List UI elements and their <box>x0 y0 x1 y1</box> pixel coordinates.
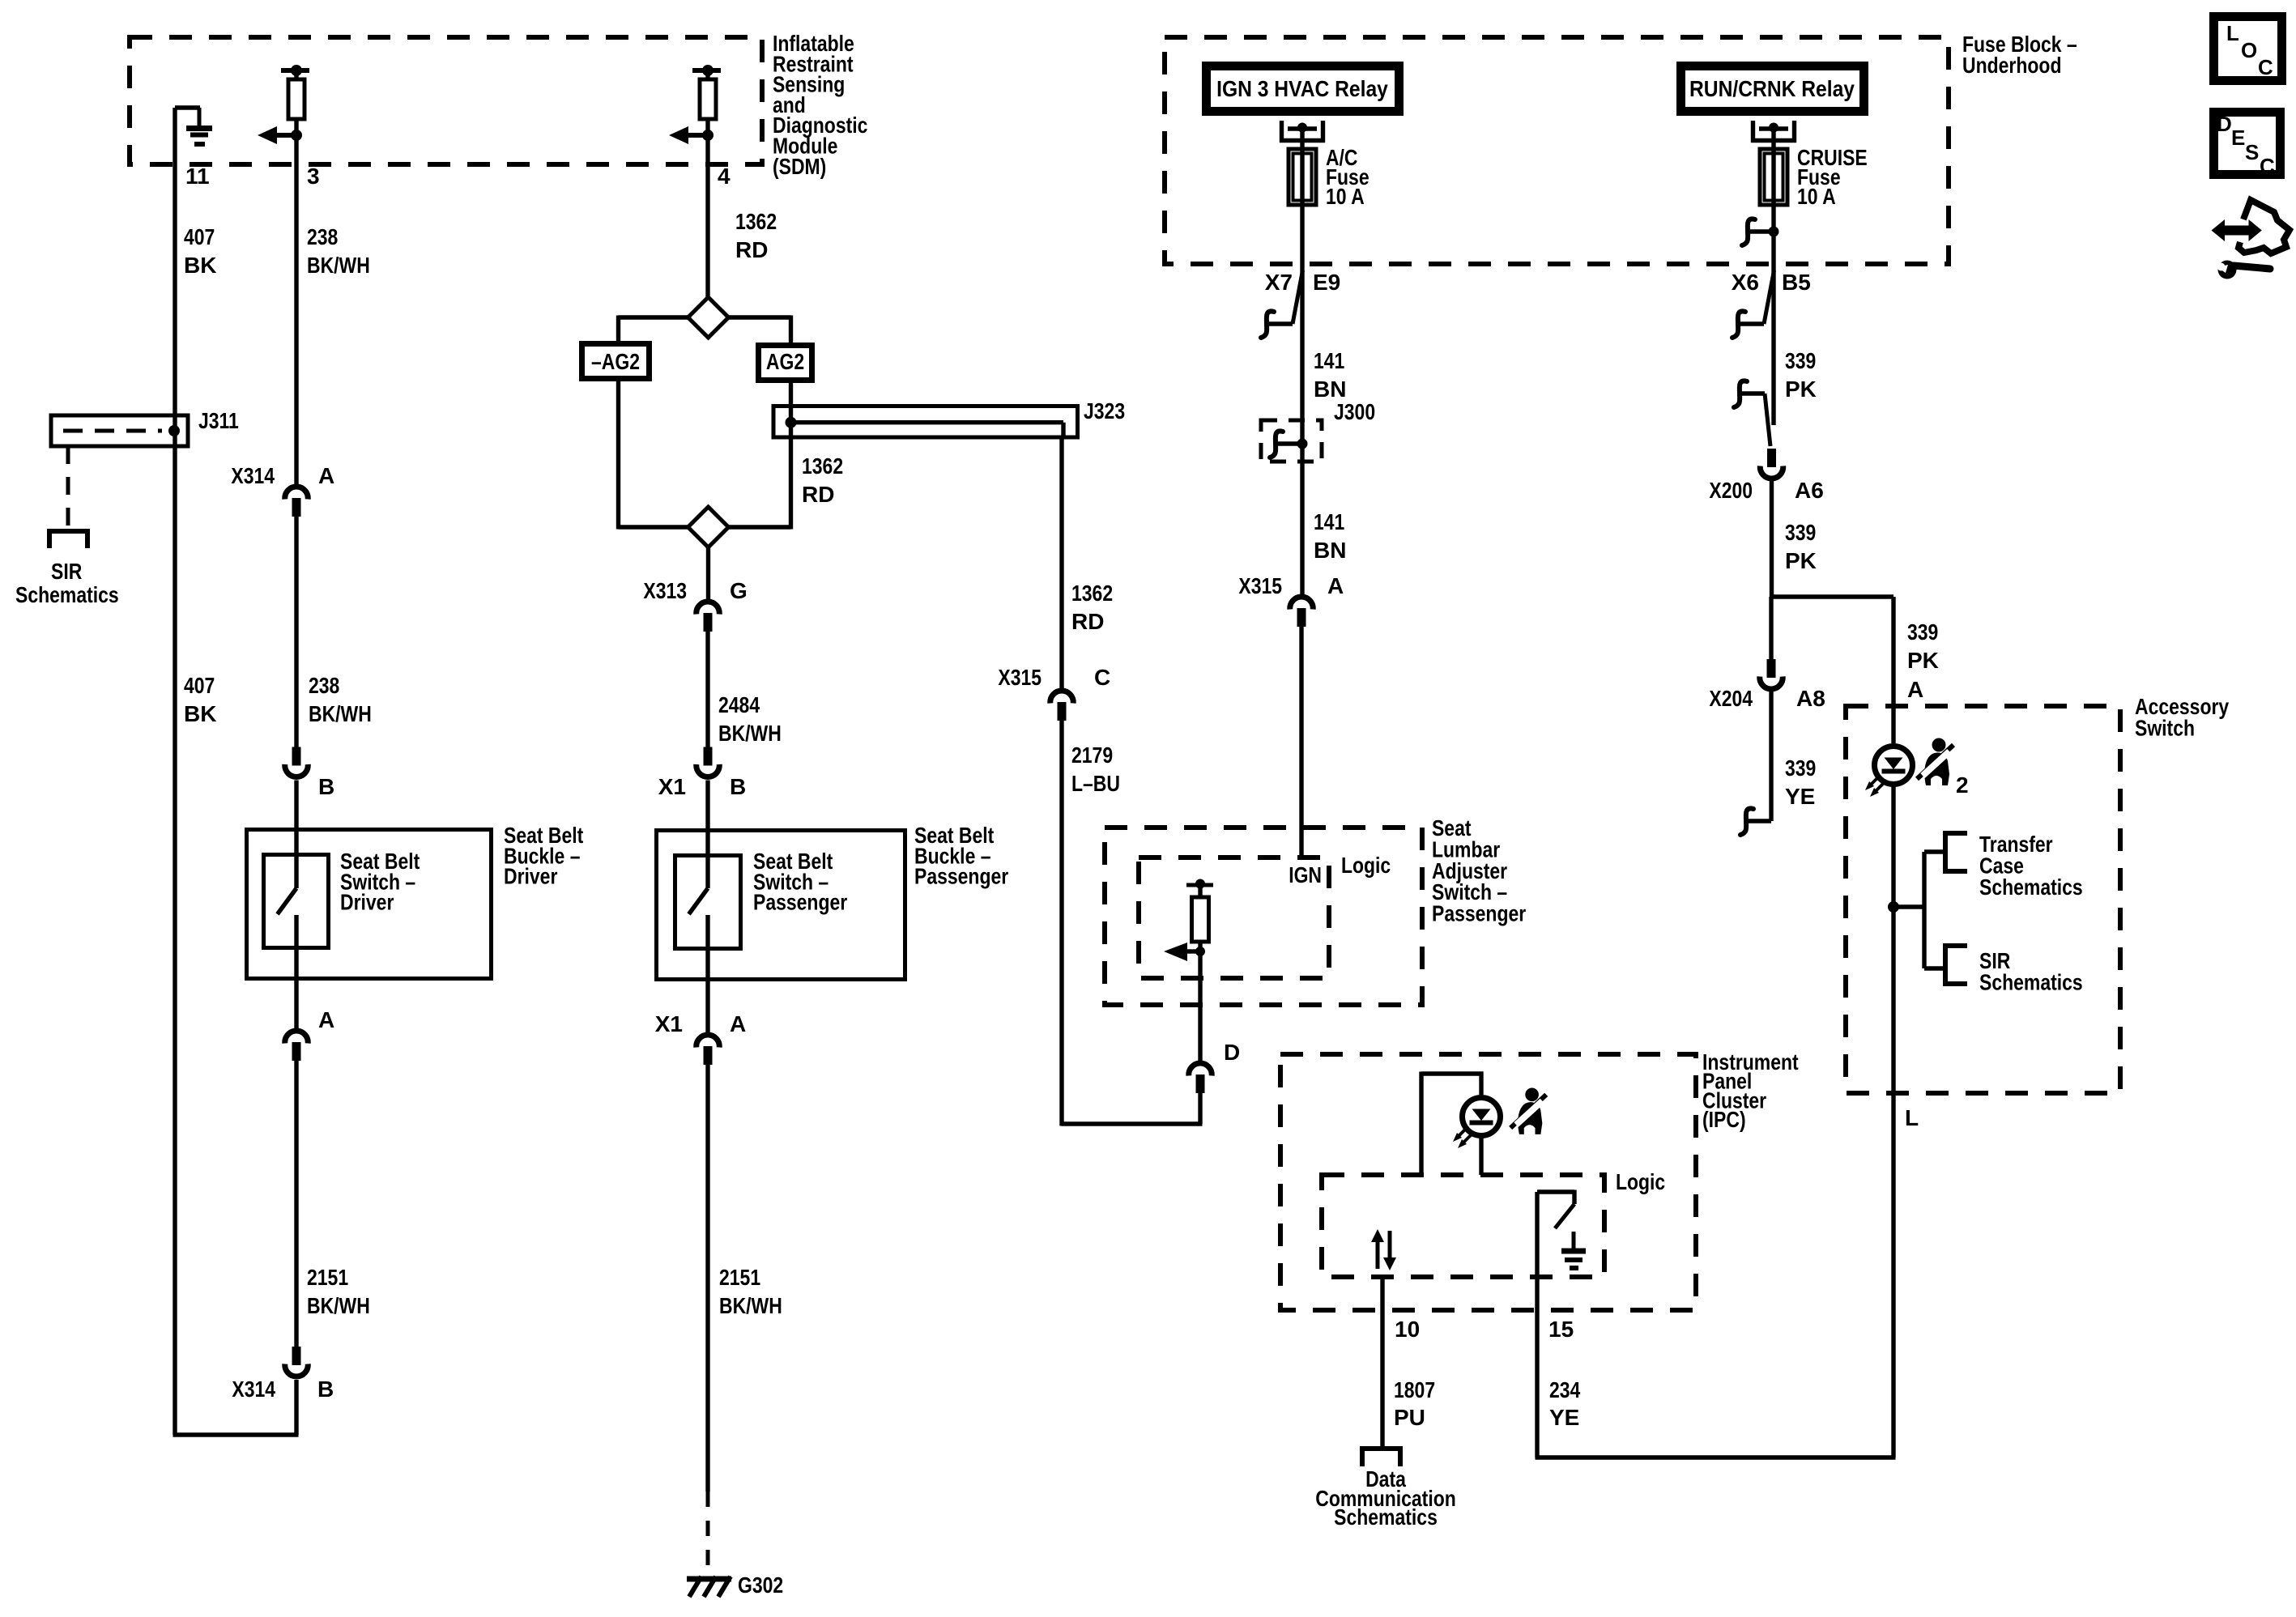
connector AG2 box <box>759 346 812 381</box>
svg-text:BK/WH: BK/WH <box>309 701 372 726</box>
wire label 238 BK/WH upper <box>307 224 370 278</box>
svg-text:AG2: AG2 <box>766 349 804 374</box>
svg-text:Logic: Logic <box>1616 1169 1665 1194</box>
J323 label <box>1084 398 1125 423</box>
svg-text:10 A: 10 A <box>1797 184 1836 209</box>
wire 141 BN upper <box>1300 264 1304 596</box>
relay RUN/CRNK box <box>1681 66 1864 112</box>
svg-text:BK/WH: BK/WH <box>307 253 370 278</box>
SIR off-page bracket right <box>1943 946 1967 984</box>
splice J311 box <box>51 415 188 446</box>
transfer case off-page bracket <box>1943 833 1967 871</box>
svg-text:L–BU: L–BU <box>1071 771 1120 796</box>
fuse block underhood dashed box <box>1165 37 1949 264</box>
connector X315 A <box>1290 597 1314 627</box>
wire label 407 BK lower <box>184 673 216 726</box>
svg-text:11: 11 <box>185 164 210 189</box>
svg-text:X204: X204 <box>1709 686 1753 711</box>
svg-text:C: C <box>2258 55 2273 79</box>
svg-text:1362: 1362 <box>735 209 777 234</box>
svg-text:Schematics: Schematics <box>1979 969 2083 994</box>
relay IGN3 terminal bracket <box>1280 121 1325 143</box>
svg-text:C: C <box>2260 154 2275 178</box>
svg-text:(SDM): (SDM) <box>773 154 826 179</box>
X200 A6 label <box>1709 478 1823 503</box>
svg-text:Driver: Driver <box>340 890 394 915</box>
transfer case schematics label <box>1979 832 2083 900</box>
seat belt buckle driver label <box>504 823 583 889</box>
wire 407 BK vertical <box>173 108 177 1435</box>
wire 407 BK return <box>173 1380 299 1435</box>
svg-text:J311: J311 <box>198 408 239 433</box>
AG2 label <box>766 349 804 374</box>
svg-text:Schematics: Schematics <box>1979 874 2083 900</box>
svg-text:Logic: Logic <box>1341 853 1391 878</box>
wire from RUN/CRNK relay <box>1771 129 1775 264</box>
svg-text:IGN 3 HVAC Relay: IGN 3 HVAC Relay <box>1216 76 1388 101</box>
switch to ground IPC <box>1537 1190 1574 1229</box>
J300 connector hook <box>1270 431 1308 457</box>
J311 label <box>198 408 239 433</box>
svg-text:E9: E9 <box>1313 270 1340 295</box>
data communication label <box>1315 1466 1456 1530</box>
splice diamond lower <box>688 507 729 547</box>
branch wires to schematics pointers <box>1893 852 1945 968</box>
svg-text:10: 10 <box>1395 1317 1420 1342</box>
svg-text:X315: X315 <box>998 665 1042 690</box>
wire label 141 BN upper <box>1314 348 1346 402</box>
wire to X313 <box>706 547 710 601</box>
connector X1 A <box>696 1035 720 1065</box>
IPC label <box>1702 1049 1799 1132</box>
svg-text:S: S <box>2245 140 2259 164</box>
svg-text:RUN/CRNK Relay: RUN/CRNK Relay <box>1689 76 1855 101</box>
wire 339 PK upper <box>1771 264 1775 425</box>
svg-text:D: D <box>1224 1040 1240 1065</box>
LED indicator IPC <box>1453 1098 1501 1149</box>
svg-text:BK/WH: BK/WH <box>719 1293 782 1318</box>
CRUISE fuse label <box>1797 145 1868 209</box>
seat belt switch passenger contacts <box>689 828 709 981</box>
svg-text:J300: J300 <box>1334 399 1375 424</box>
svg-text:X7: X7 <box>1265 270 1293 295</box>
X313 label <box>643 578 747 603</box>
wire label 234 YE <box>1549 1377 1581 1430</box>
-AG2 label <box>591 349 640 374</box>
svg-text:238: 238 <box>309 673 339 698</box>
dashed wire to G302 <box>706 1491 710 1575</box>
IPC logic label <box>1616 1169 1665 1194</box>
X315 A label <box>1238 573 1344 598</box>
lumbar logic dashed box <box>1139 857 1329 978</box>
ground G302 <box>687 1577 731 1597</box>
X7 E9 labels <box>1265 270 1341 295</box>
wire label 1807 PU <box>1394 1377 1435 1430</box>
D label <box>1224 1040 1240 1065</box>
relay IGN 3 HVAC box <box>1207 66 1399 112</box>
SIR schematics label <box>15 559 119 607</box>
dashed wire to SIR schematics <box>66 446 70 526</box>
connector -AG2 box <box>582 344 650 379</box>
LED indicator accessory <box>1865 747 1913 798</box>
seat belt switch driver inner box <box>264 855 329 948</box>
svg-text:2: 2 <box>1956 772 1969 798</box>
svg-text:2179: 2179 <box>1071 743 1113 768</box>
wire left branch <box>619 379 688 530</box>
connector D <box>1189 1063 1212 1093</box>
indicator 2 label <box>1956 772 1969 798</box>
svg-text:3: 3 <box>307 164 320 189</box>
DESC icon box <box>2214 112 2281 178</box>
svg-text:1807: 1807 <box>1394 1377 1435 1402</box>
wire 339 YE <box>1740 691 1771 835</box>
junction dot accessory <box>1888 901 1899 913</box>
svg-text:PK: PK <box>1785 377 1817 402</box>
svg-text:PK: PK <box>1785 548 1817 573</box>
lumbar logic label <box>1341 853 1391 878</box>
IPC logic dashed box <box>1322 1175 1604 1277</box>
svg-text:E: E <box>2231 126 2245 150</box>
svg-text:X6: X6 <box>1732 270 1759 295</box>
svg-text:–AG2: –AG2 <box>591 349 640 374</box>
svg-text:X314: X314 <box>232 1377 275 1402</box>
wire label 2179 L-BU <box>1071 743 1120 796</box>
svg-text:339: 339 <box>1785 520 1816 545</box>
wire 1362 RD from pin 4 <box>705 164 709 297</box>
wire 234 YE pin 15 <box>1535 1192 1539 1457</box>
wrench icon <box>2217 261 2271 279</box>
svg-text:O: O <box>2241 38 2257 62</box>
svg-text:234: 234 <box>1549 1377 1581 1402</box>
LED feed loop IPC <box>1421 1072 1484 1176</box>
wire into driver buckle <box>294 781 298 829</box>
svg-text:D: D <box>2217 112 2232 136</box>
wire label 1362 RD right <box>1071 581 1113 634</box>
wire branch to accessory switch <box>1772 597 1894 743</box>
svg-text:238: 238 <box>307 224 338 249</box>
svg-text:X200: X200 <box>1709 478 1753 503</box>
wire 2179 L-BU <box>1059 437 1063 690</box>
svg-text:1362: 1362 <box>802 453 843 479</box>
svg-text:BK/WH: BK/WH <box>307 1293 370 1318</box>
svg-text:RD: RD <box>1071 609 1104 634</box>
svg-text:Schematics: Schematics <box>15 582 119 607</box>
svg-text:J323: J323 <box>1084 398 1125 423</box>
svg-text:BK: BK <box>184 701 216 726</box>
connector X7 E9 <box>1261 270 1303 338</box>
pin 10 label <box>1395 1317 1420 1342</box>
ground inside IPC logic <box>1561 1232 1586 1268</box>
connector A driver <box>285 1031 309 1061</box>
svg-text:G: G <box>730 578 748 603</box>
LOC icon box <box>2214 17 2282 81</box>
svg-text:A: A <box>1907 677 1923 702</box>
resistor lumbar <box>1186 879 1213 1006</box>
svg-text:Driver: Driver <box>504 864 557 889</box>
A/C fuse label <box>1326 145 1370 209</box>
connector X204 A8 <box>1760 659 1783 689</box>
arrow SDM passenger output <box>669 126 714 144</box>
wire label 2151 BK/WH driver <box>307 1265 370 1318</box>
J300 label <box>1334 399 1375 424</box>
fuse block label <box>1962 32 2077 78</box>
svg-text:A: A <box>318 1007 334 1032</box>
wire 2151 BK/WH driver <box>294 1061 298 1347</box>
splice J300 dashed box <box>1261 420 1322 462</box>
wire label 407 BK upper <box>184 224 216 278</box>
wire to connector D <box>1198 1005 1202 1062</box>
wire 2484 BK/WH <box>705 632 709 747</box>
fuse CRUISE 10A <box>1760 149 1787 205</box>
data communication off-page bracket <box>1362 1446 1400 1466</box>
connector X1 B <box>696 747 720 777</box>
svg-text:407: 407 <box>184 224 215 249</box>
SIR schematics label right <box>1979 948 2083 994</box>
seat belt switch driver contacts <box>278 828 297 981</box>
svg-text:BK: BK <box>184 253 216 278</box>
svg-text:2151: 2151 <box>719 1265 760 1290</box>
svg-text:10 A: 10 A <box>1326 184 1365 209</box>
svg-text:A6: A6 <box>1795 478 1824 503</box>
splice bus J323 <box>773 406 1078 438</box>
wire label 339 PK lower <box>1785 520 1817 573</box>
svg-text:A: A <box>1327 573 1344 598</box>
wire branch top horizontal <box>619 316 791 343</box>
double arrow icon <box>2212 219 2262 241</box>
seat belt buckle passenger box <box>657 831 905 980</box>
pin 15 label <box>1548 1317 1574 1342</box>
serial data arrows <box>1371 1229 1396 1270</box>
X6 B5 labels <box>1732 270 1811 295</box>
IGN 3 HVAC Relay label <box>1216 76 1388 101</box>
connector X315 C <box>1050 691 1074 721</box>
wire label 2484 BK/WH <box>718 692 782 746</box>
svg-text:L: L <box>2226 21 2239 45</box>
wire LED to logic <box>1479 1135 1483 1175</box>
svg-text:A8: A8 <box>1796 686 1825 711</box>
seat belt buckle passenger label <box>914 823 1008 889</box>
svg-text:339: 339 <box>1785 755 1816 781</box>
wire label 1362 RD upper <box>735 209 777 262</box>
connector X200 A6 <box>1734 381 1783 478</box>
seat belt buckle driver box <box>247 830 492 979</box>
svg-text:BK/WH: BK/WH <box>718 721 782 746</box>
SDM module label <box>773 31 867 179</box>
svg-text:PU: PU <box>1394 1405 1425 1430</box>
SDM module dashed box <box>130 37 762 164</box>
svg-text:339: 339 <box>1785 348 1816 373</box>
svg-text:X314: X314 <box>231 463 275 488</box>
accessory switch dashed box <box>1846 706 2120 1093</box>
seat belt switch driver label <box>340 849 420 915</box>
X314 B label <box>232 1377 334 1402</box>
svg-text:Passenger: Passenger <box>1432 901 1526 926</box>
wire 238 BK/WH lower <box>294 517 298 747</box>
svg-text:RD: RD <box>735 237 768 262</box>
pin A label accessory <box>1907 677 1923 702</box>
wire IGN into lumbar switch <box>1299 627 1303 857</box>
SIR schematics off-page bracket <box>49 529 87 548</box>
X314 A label <box>231 463 334 488</box>
seat lumbar adjuster switch dashed box <box>1105 828 1422 1005</box>
svg-text:4: 4 <box>718 164 731 189</box>
wire label 1362 RD mid <box>802 453 843 507</box>
wire 1807 PU pin 10 <box>1380 1277 1384 1446</box>
svg-text:1362: 1362 <box>1071 581 1113 606</box>
wire 234 YE horizontal run <box>1536 1091 1896 1457</box>
svg-text:SIR: SIR <box>51 559 82 584</box>
svg-text:B: B <box>317 1377 334 1402</box>
svg-text:PK: PK <box>1907 648 1939 673</box>
wire above X1 A <box>705 981 709 1034</box>
svg-text:B: B <box>730 774 746 799</box>
pin 4 label <box>718 164 731 189</box>
svg-text:L: L <box>1905 1105 1919 1130</box>
svg-text:YE: YE <box>1549 1405 1579 1430</box>
wire 339 PK lower <box>1770 481 1774 597</box>
wire 238 BK/WH from pin 3 <box>294 164 298 486</box>
svg-text:C: C <box>1094 665 1110 690</box>
svg-text:X315: X315 <box>1238 573 1282 598</box>
accessory switch label <box>2135 694 2230 740</box>
svg-text:141: 141 <box>1314 509 1344 534</box>
svg-text:B: B <box>318 774 334 799</box>
svg-text:(IPC): (IPC) <box>1702 1107 1746 1132</box>
X1 A label <box>655 1011 746 1036</box>
wire accessory switch vertical <box>1891 784 1895 1096</box>
outline arrow icon <box>2238 200 2290 253</box>
seat belt icon IPC <box>1510 1088 1546 1139</box>
svg-text:Passenger: Passenger <box>914 864 1008 889</box>
connector X314 A <box>285 487 309 517</box>
svg-text:RD: RD <box>802 482 834 507</box>
wire above connector A driver <box>294 981 298 1030</box>
wire from IGN3 relay <box>1300 129 1304 264</box>
svg-text:X1: X1 <box>658 774 686 799</box>
svg-text:YE: YE <box>1785 784 1815 809</box>
RUN/CRNK Relay label <box>1689 76 1855 101</box>
svg-text:X313: X313 <box>643 578 687 603</box>
ground symbol inside SDM <box>175 108 212 144</box>
connector B driver buckle <box>285 747 309 777</box>
arrow SDM driver output <box>258 126 302 144</box>
pin 3 label <box>307 164 320 189</box>
connector X314 B lower <box>285 1347 309 1377</box>
wire label 2151 BK/WH passenger <box>719 1265 782 1318</box>
wire to X204 <box>1769 597 1773 659</box>
G302 label <box>738 1572 783 1598</box>
X204 A8 label <box>1709 686 1825 711</box>
svg-text:BN: BN <box>1314 538 1346 563</box>
connector X313 G <box>696 602 720 632</box>
wire label 141 BN lower <box>1314 509 1346 563</box>
svg-text:407: 407 <box>184 673 215 698</box>
svg-text:15: 15 <box>1548 1317 1574 1342</box>
fuse A/C 10A <box>1289 149 1316 205</box>
svg-text:Switch: Switch <box>2135 715 2195 740</box>
arrow lumbar output <box>1164 943 1205 961</box>
B label <box>318 774 334 799</box>
IGN label <box>1289 862 1322 887</box>
seat lumbar adjuster switch label <box>1432 815 1526 926</box>
pin L label <box>1905 1105 1919 1130</box>
X1 B label <box>658 774 746 799</box>
svg-text:Passenger: Passenger <box>753 890 847 915</box>
wire right branch <box>729 381 791 530</box>
svg-text:BN: BN <box>1314 377 1346 402</box>
svg-text:339: 339 <box>1907 619 1938 645</box>
resistor SDM driver side <box>281 65 309 164</box>
resistor SDM passenger side <box>692 65 721 164</box>
svg-text:Schematics: Schematics <box>1334 1504 1438 1530</box>
pin 11 label <box>185 164 210 189</box>
X315 C label <box>998 665 1110 690</box>
relay RUN/CRNK terminal bracket <box>1751 121 1796 143</box>
svg-text:X1: X1 <box>655 1011 683 1036</box>
svg-text:G302: G302 <box>738 1572 783 1598</box>
connector X6 B5 <box>1732 270 1774 338</box>
wire label 339 YE <box>1785 755 1816 809</box>
svg-text:Underhood: Underhood <box>1962 53 2062 78</box>
svg-text:A: A <box>730 1011 746 1036</box>
wire 2179 L-BU lower <box>1062 721 1203 1126</box>
svg-text:IGN: IGN <box>1289 862 1322 887</box>
seat belt icon accessory <box>1917 738 1953 791</box>
svg-text:2484: 2484 <box>718 692 760 717</box>
wire label 339 PK branch <box>1907 619 1939 673</box>
svg-text:141: 141 <box>1314 348 1344 373</box>
wire 2151 BK/WH passenger <box>705 1065 709 1491</box>
seat belt switch passenger inner box <box>675 856 741 949</box>
svg-text:2151: 2151 <box>307 1265 348 1290</box>
wire into passenger buckle <box>705 781 709 829</box>
instrument panel cluster dashed box <box>1280 1054 1696 1310</box>
svg-text:A: A <box>318 463 334 488</box>
wire label 238 BK/WH lower <box>309 673 372 726</box>
wire label 339 PK upper <box>1785 348 1817 402</box>
A label driver <box>318 1007 334 1032</box>
connector below CRUISE fuse <box>1742 219 1779 245</box>
svg-text:B5: B5 <box>1782 270 1811 295</box>
seat belt switch passenger label <box>753 849 847 915</box>
splice diamond upper <box>688 297 729 338</box>
